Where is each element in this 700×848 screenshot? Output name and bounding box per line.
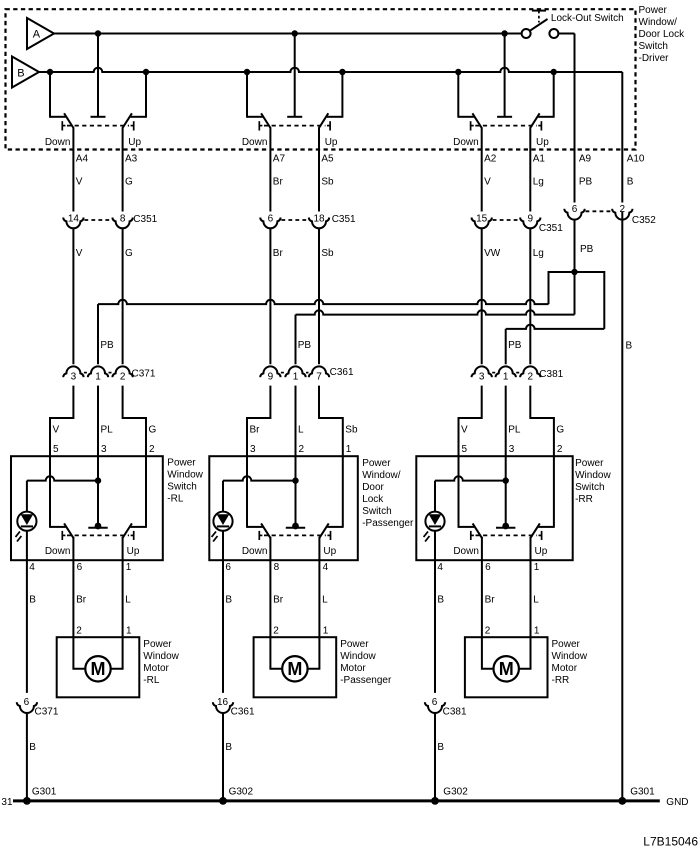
svg-text:6: 6 [485, 562, 491, 573]
svg-text:G302: G302 [443, 787, 468, 798]
svg-text:C371: C371 [132, 368, 156, 379]
svg-text:14: 14 [68, 213, 80, 224]
svg-text:C361: C361 [330, 367, 354, 378]
svg-text:V: V [76, 177, 83, 188]
svg-text:PB: PB [508, 340, 522, 351]
svg-text:V: V [76, 248, 83, 259]
svg-text:B: B [29, 742, 36, 753]
svg-text:B: B [225, 742, 232, 753]
svg-text:2: 2 [273, 626, 279, 637]
svg-text:3: 3 [71, 371, 77, 382]
svg-text:3: 3 [479, 371, 485, 382]
svg-text:Sb: Sb [321, 177, 334, 188]
svg-text:Lock: Lock [362, 494, 384, 505]
svg-text:Motor: Motor [552, 663, 578, 674]
svg-text:-Passenger: -Passenger [340, 675, 392, 686]
svg-text:1: 1 [293, 371, 299, 382]
svg-text:G: G [556, 424, 564, 435]
svg-text:M: M [287, 659, 302, 679]
svg-text:2: 2 [485, 626, 491, 637]
svg-text:1: 1 [534, 626, 540, 637]
svg-text:V: V [461, 424, 468, 435]
svg-text:15: 15 [476, 213, 488, 224]
svg-text:Br: Br [76, 595, 87, 606]
svg-text:L: L [125, 595, 131, 606]
svg-text:3: 3 [509, 444, 515, 455]
svg-text:C381: C381 [443, 707, 467, 718]
svg-text:PL: PL [508, 424, 521, 435]
svg-text:1: 1 [95, 371, 101, 382]
svg-text:A: A [33, 29, 41, 41]
svg-text:Power: Power [575, 458, 604, 469]
svg-text:1: 1 [503, 371, 509, 382]
svg-text:V: V [484, 177, 491, 188]
svg-text:C351: C351 [539, 223, 563, 234]
svg-text:Window: Window [167, 470, 203, 481]
svg-text:7: 7 [316, 371, 322, 382]
svg-text:Door: Door [362, 482, 384, 493]
svg-text:1: 1 [126, 562, 132, 573]
svg-text:3: 3 [250, 444, 256, 455]
svg-text:Window/: Window/ [362, 470, 401, 481]
svg-text:1: 1 [126, 626, 132, 637]
svg-text:1: 1 [346, 444, 352, 455]
svg-text:Up: Up [127, 546, 140, 557]
svg-text:-RL: -RL [167, 494, 184, 505]
svg-text:6: 6 [225, 562, 231, 573]
svg-text:Motor: Motor [340, 663, 366, 674]
svg-text:L: L [533, 595, 539, 606]
svg-text:Power: Power [340, 639, 369, 650]
svg-text:L7B15046: L7B15046 [643, 834, 698, 848]
svg-text:2: 2 [528, 371, 534, 382]
svg-text:2: 2 [149, 444, 155, 455]
svg-text:Power: Power [143, 639, 172, 650]
svg-text:-Passenger: -Passenger [362, 518, 414, 529]
svg-text:Lg: Lg [533, 248, 544, 259]
svg-text:2: 2 [76, 626, 82, 637]
svg-text:C371: C371 [35, 707, 59, 718]
svg-text:A7: A7 [273, 154, 286, 165]
svg-text:B: B [627, 177, 634, 188]
svg-text:4: 4 [29, 562, 35, 573]
svg-text:6: 6 [268, 213, 274, 224]
svg-text:6: 6 [572, 204, 578, 215]
svg-text:-RR: -RR [575, 494, 593, 505]
svg-text:Br: Br [485, 595, 496, 606]
svg-text:B: B [225, 595, 232, 606]
svg-text:Door Lock: Door Lock [639, 29, 686, 40]
svg-text:6: 6 [432, 697, 438, 708]
svg-text:-Driver: -Driver [639, 53, 670, 64]
svg-text:A2: A2 [484, 154, 497, 165]
svg-text:Switch: Switch [575, 482, 604, 493]
svg-text:B: B [437, 742, 444, 753]
svg-text:31: 31 [1, 797, 13, 808]
svg-text:Br: Br [273, 595, 284, 606]
svg-text:Power: Power [167, 458, 196, 469]
svg-text:G302: G302 [229, 787, 254, 798]
svg-text:-RL: -RL [143, 675, 160, 686]
svg-text:4: 4 [437, 562, 443, 573]
svg-text:4: 4 [323, 562, 329, 573]
svg-text:Up: Up [535, 546, 548, 557]
svg-text:B: B [626, 340, 633, 351]
svg-text:2: 2 [557, 444, 563, 455]
svg-text:Up: Up [128, 137, 141, 148]
svg-text:C381: C381 [539, 369, 563, 380]
svg-text:C361: C361 [231, 707, 255, 718]
svg-text:5: 5 [53, 444, 59, 455]
svg-text:6: 6 [24, 697, 30, 708]
svg-text:8: 8 [274, 562, 280, 573]
svg-text:Switch: Switch [167, 482, 196, 493]
svg-text:A3: A3 [125, 154, 138, 165]
svg-text:VW: VW [484, 248, 501, 259]
svg-text:PB: PB [579, 177, 593, 188]
svg-text:A5: A5 [321, 154, 334, 165]
svg-text:PB: PB [298, 340, 312, 351]
svg-text:L: L [298, 424, 304, 435]
svg-text:M: M [499, 659, 514, 679]
svg-text:Down: Down [453, 137, 479, 148]
svg-text:Down: Down [453, 546, 479, 557]
svg-text:1: 1 [323, 626, 329, 637]
svg-text:G: G [125, 248, 133, 259]
svg-text:Up: Up [536, 137, 549, 148]
svg-text:Br: Br [273, 177, 284, 188]
svg-text:PB: PB [580, 244, 594, 255]
svg-text:-RR: -RR [552, 675, 570, 686]
svg-text:9: 9 [528, 213, 534, 224]
svg-text:Window: Window [552, 651, 588, 662]
svg-text:B: B [17, 68, 24, 80]
svg-text:Window: Window [575, 470, 611, 481]
svg-text:Motor: Motor [143, 663, 169, 674]
svg-text:5: 5 [462, 444, 468, 455]
svg-text:Br: Br [273, 248, 284, 259]
svg-text:PB: PB [100, 340, 114, 351]
svg-text:M: M [91, 659, 106, 679]
svg-text:18: 18 [313, 213, 325, 224]
svg-text:B: B [29, 595, 36, 606]
svg-text:G301: G301 [32, 787, 57, 798]
svg-text:Window: Window [340, 651, 376, 662]
svg-text:C352: C352 [632, 215, 656, 226]
svg-text:Up: Up [325, 137, 338, 148]
svg-text:Sb: Sb [345, 424, 358, 435]
svg-text:Down: Down [242, 137, 268, 148]
svg-text:Power: Power [362, 458, 391, 469]
svg-text:G301: G301 [630, 787, 655, 798]
svg-text:16: 16 [217, 697, 229, 708]
svg-text:Switch: Switch [639, 41, 668, 52]
svg-text:Power: Power [552, 639, 581, 650]
svg-text:GND: GND [666, 797, 688, 808]
svg-text:A4: A4 [76, 154, 89, 165]
svg-text:Lock-Out Switch: Lock-Out Switch [551, 13, 624, 24]
svg-text:Switch: Switch [362, 506, 391, 517]
svg-text:6: 6 [77, 562, 83, 573]
svg-text:9: 9 [268, 371, 274, 382]
svg-text:B: B [437, 595, 444, 606]
svg-text:A10: A10 [627, 154, 645, 165]
svg-text:G: G [125, 177, 133, 188]
svg-text:C351: C351 [133, 214, 157, 225]
svg-text:V: V [53, 424, 60, 435]
svg-text:C351: C351 [332, 214, 356, 225]
svg-text:G: G [149, 424, 157, 435]
svg-text:2: 2 [120, 371, 126, 382]
svg-text:L: L [322, 595, 328, 606]
svg-text:Up: Up [323, 546, 336, 557]
svg-text:Down: Down [242, 546, 268, 557]
svg-text:Br: Br [250, 424, 261, 435]
svg-text:Down: Down [45, 137, 71, 148]
svg-text:PL: PL [101, 424, 114, 435]
svg-text:Lg: Lg [533, 177, 544, 188]
svg-text:3: 3 [101, 444, 107, 455]
svg-text:8: 8 [120, 213, 126, 224]
svg-text:Power: Power [639, 5, 668, 16]
svg-text:2: 2 [299, 444, 305, 455]
svg-text:1: 1 [534, 562, 540, 573]
svg-text:Window/: Window/ [639, 17, 678, 28]
svg-text:A1: A1 [533, 154, 546, 165]
svg-text:A9: A9 [579, 154, 592, 165]
svg-text:Down: Down [45, 546, 71, 557]
svg-text:Window: Window [143, 651, 179, 662]
svg-text:Sb: Sb [321, 248, 334, 259]
